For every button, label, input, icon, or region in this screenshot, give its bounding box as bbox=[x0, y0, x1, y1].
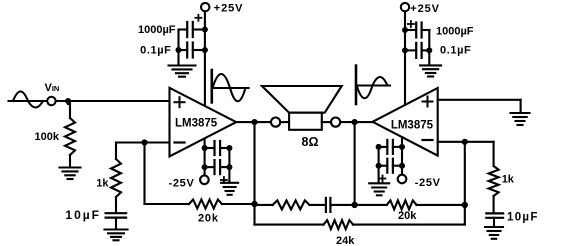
wire bypass lower left V- leads bbox=[205, 166, 215, 168]
wire U2 V- pin to -25V terminal bbox=[401, 137, 403, 175]
waveform symbol left output bbox=[211, 70, 214, 102]
waveform symbol right output (inverted) bbox=[355, 66, 358, 104]
wire node A to 20k left row bbox=[145, 203, 190, 205]
resistor middle snubber bbox=[273, 200, 310, 209]
svg-text:-25V: -25V bbox=[168, 177, 194, 189]
resistor 1k right bbox=[489, 166, 499, 196]
pin - of U1 bbox=[175, 141, 185, 143]
wire to R 1k right bbox=[493, 142, 495, 166]
svg-text:VIN: VIN bbox=[45, 82, 60, 94]
ground right supply bbox=[420, 65, 441, 76]
wire 100k to ground bbox=[69, 155, 71, 167]
wire node B vertical down bbox=[354, 122, 356, 205]
wire U1 - node vertical to 20k row bbox=[143, 143, 145, 205]
polarity + of 1000uF left bbox=[195, 15, 201, 21]
ground left V- bbox=[221, 183, 238, 195]
wire +25V rail to U2 V+ pin bbox=[404, 11, 406, 105]
polarity + right V- bbox=[380, 176, 386, 182]
resistor 20k right bbox=[387, 200, 417, 209]
capacitor bypass lower left V- plates bbox=[215, 160, 221, 174]
wire U2 - input to feedback node bbox=[438, 141, 494, 143]
node U2 feedback bottom junction bbox=[462, 202, 468, 208]
ground 10uF right bbox=[485, 227, 503, 239]
svg-text:10µF: 10µF bbox=[507, 211, 539, 223]
svg-text:0.1µF: 0.1µF bbox=[440, 45, 471, 57]
svg-text:-25V: -25V bbox=[415, 177, 441, 189]
svg-text:20k: 20k bbox=[198, 212, 219, 224]
wire 0.1uF left leads bbox=[179, 49, 188, 51]
polarity + left V- bbox=[221, 177, 227, 183]
wire U1 - input to feedback corner bbox=[116, 141, 170, 143]
capacitor 10uF left plates bbox=[106, 213, 127, 217]
wire corner to R 1k left bbox=[115, 143, 117, 160]
ground 10uF left bbox=[105, 230, 128, 241]
svg-text:+25V: +25V bbox=[214, 2, 244, 14]
capacitor middle snubber plates bbox=[326, 198, 331, 212]
source sine symbol VIN bbox=[13, 92, 43, 108]
speaker LS1 magnet box bbox=[289, 113, 322, 130]
resistor 100k bbox=[65, 118, 75, 155]
ground right V- bbox=[369, 183, 389, 195]
node dots left V- network bbox=[202, 145, 208, 151]
terminal +25V left bbox=[201, 3, 209, 11]
capacitor 10uF right plates bbox=[486, 213, 503, 217]
svg-text:10µF: 10µF bbox=[65, 208, 101, 222]
ground left supply bbox=[169, 66, 196, 77]
svg-text:1000µF: 1000µF bbox=[138, 24, 176, 36]
wire 24k row left segment bbox=[255, 224, 324, 226]
capacitor 1000uF right plates bbox=[416, 23, 421, 38]
svg-text:LM3875: LM3875 bbox=[175, 118, 218, 130]
node U1 inverting input junction bbox=[141, 139, 147, 145]
wire bypass upper right V- leads bbox=[379, 146, 388, 148]
node B output U2 junction bbox=[352, 119, 358, 125]
capacitor 0.1uF right plates bbox=[416, 43, 421, 58]
node dots right V- network bbox=[399, 144, 405, 150]
wire 1k right to cap 10uF bbox=[493, 196, 495, 212]
terminal VIN bbox=[47, 97, 55, 105]
terminal speaker left bbox=[271, 118, 280, 127]
wire left decoupling to ground bbox=[177, 30, 179, 66]
wire U2 + input to ground bbox=[438, 99, 521, 101]
capacitor 0.1uF left plates bbox=[187, 43, 193, 58]
wire 20k left to node A bbox=[222, 203, 255, 205]
svg-text:1000µF: 1000µF bbox=[436, 25, 474, 37]
node rail dots right supply bbox=[402, 27, 408, 33]
wire 1k left to cap 10uF bbox=[115, 197, 117, 212]
capacitor bypass upper right V- plates bbox=[387, 140, 393, 154]
capacitor bypass lower right V- plates bbox=[387, 159, 393, 173]
svg-text:1k: 1k bbox=[96, 177, 109, 189]
wire 20k right to U2 feedback node bbox=[417, 204, 465, 206]
op-amp U1 LM3875 (left) bbox=[170, 88, 237, 157]
svg-text:8Ω: 8Ω bbox=[302, 135, 319, 149]
resistor 24k bbox=[324, 220, 354, 229]
wire node A to middle RC bbox=[255, 204, 273, 206]
svg-text:+25V: +25V bbox=[410, 3, 440, 15]
svg-text:0.1µF: 0.1µF bbox=[140, 44, 171, 56]
wire input node down to R 100k bbox=[67, 101, 69, 104]
wire bypass lower right V- leads bbox=[379, 165, 388, 167]
wire node A vertical down bbox=[253, 122, 255, 225]
wire speaker right to U2 output bbox=[322, 121, 331, 123]
node B bottom junction bbox=[351, 202, 357, 208]
ground U2 + input bbox=[511, 113, 530, 125]
resistor 1k left bbox=[111, 159, 121, 197]
wire right V- bypass to ground bbox=[378, 147, 380, 183]
resistor 20k left bbox=[189, 200, 222, 209]
polarity + of 1000uF right bbox=[408, 21, 414, 27]
wire middle R to middle C bbox=[309, 204, 326, 206]
wire U2 - node vertical to bottom network bbox=[464, 142, 466, 225]
pin - of U2 bbox=[423, 139, 433, 141]
node input junction bbox=[65, 98, 71, 104]
wire 24k row right segment bbox=[353, 224, 465, 226]
wire 10uF right to ground bbox=[493, 218, 495, 227]
wire 1000uF left leads bbox=[179, 28, 188, 30]
svg-text:100k: 100k bbox=[35, 131, 60, 143]
wire left V- bypass to ground bbox=[228, 148, 230, 183]
pin + of U1 bbox=[175, 97, 185, 107]
capacitor bypass upper left V- plates bbox=[215, 141, 221, 155]
wire 1000uF right leads bbox=[405, 29, 416, 31]
terminal speaker right bbox=[331, 118, 340, 127]
svg-text:LM3875: LM3875 bbox=[391, 120, 434, 132]
node U2 inverting input junction bbox=[462, 139, 468, 145]
wire 10uF left to ground bbox=[115, 218, 117, 230]
svg-text:20k: 20k bbox=[398, 210, 417, 222]
ground below 100k bbox=[60, 168, 81, 180]
wire node B to 20k right bbox=[355, 204, 387, 206]
node A output U1 junction bbox=[251, 119, 257, 125]
node rail dots left supply bbox=[202, 27, 208, 33]
wire 0.1uF right leads bbox=[405, 49, 416, 51]
node A bottom junction bbox=[251, 201, 257, 207]
speaker LS1 cone bbox=[262, 86, 342, 113]
wire input from source to U1 noninverting input bbox=[9, 100, 48, 102]
op-amp U2 LM3875 (right, mirrored) bbox=[373, 88, 438, 156]
pin + of U2 bbox=[423, 97, 433, 107]
svg-text:1k: 1k bbox=[502, 173, 515, 185]
terminal -25V left bbox=[200, 176, 209, 185]
terminal -25V right bbox=[398, 175, 407, 184]
wire middle C to node B bbox=[330, 204, 354, 206]
svg-text:24k: 24k bbox=[336, 235, 355, 246]
wire U1 V- pin to -25V terminal bbox=[204, 139, 206, 176]
wire right decoupling to ground bbox=[428, 30, 430, 65]
wire bypass upper left V- leads bbox=[205, 147, 215, 149]
wire +25V rail to U1 V+ pin bbox=[204, 11, 206, 105]
terminal +25V right bbox=[401, 3, 409, 11]
capacitor 1000uF left plates bbox=[187, 22, 193, 37]
wire U1 output to speaker left terminal bbox=[236, 121, 271, 123]
